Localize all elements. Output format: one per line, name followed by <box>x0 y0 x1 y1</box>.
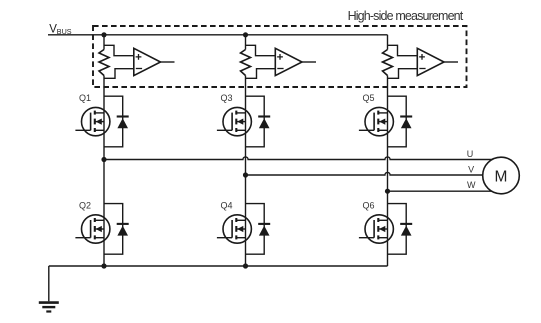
svg-text:Q4: Q4 <box>221 201 233 211</box>
svg-text:U: U <box>467 149 474 159</box>
wire: column 3 rail VBUS to shunt R3 <box>387 35 389 50</box>
junction node W (Q5 source / Q6 drain) <box>385 189 390 194</box>
junction node VBUS / column 2 <box>243 32 248 37</box>
transistor Q4 (N-channel MOSFET) <box>217 215 252 243</box>
junction node VBUS / column 1 <box>101 32 106 37</box>
body diode D6 of Q6 <box>388 204 413 255</box>
transistor Q6 (N-channel MOSFET) <box>359 215 394 243</box>
body diode D3 of Q3 <box>246 96 271 147</box>
transistor Q3 (N-channel MOSFET) <box>217 107 252 135</box>
junction node V (Q3 source / Q4 drain) <box>243 172 248 177</box>
wire: column 3 rail shunt to bottom rail <box>387 76 389 267</box>
op-amp U3 (current-sense amplifier) <box>417 48 444 75</box>
wire: shunt lower sense tap to op-amp U1 - input <box>104 69 134 79</box>
svg-text:High-side measurement: High-side measurement <box>348 9 464 23</box>
svg-text:W: W <box>467 180 476 190</box>
wire: op-amp U2 output stub <box>302 61 316 63</box>
shunt resistor R2 (high-side shunt) <box>241 50 251 76</box>
wire: op-amp U3 output stub <box>444 61 458 63</box>
high-side measurement dashed boundary box <box>93 26 467 87</box>
wire: shunt upper sense tap to op-amp U1 + input <box>104 45 134 55</box>
ground <box>39 303 59 312</box>
body diode D1 of Q1 <box>104 96 129 147</box>
transistor Q5 (N-channel MOSFET) <box>359 107 394 135</box>
body diode D2 of Q2 <box>104 204 129 255</box>
wire: shunt lower sense tap to op-amp U2 - input <box>246 69 276 79</box>
wire: phase W from Q5/Q6 node to motor <box>388 190 498 192</box>
net label VBUS <box>49 23 72 36</box>
wire: shunt upper sense tap to op-amp U3 + input <box>388 45 418 55</box>
svg-text:Q1: Q1 <box>79 93 91 103</box>
body diode D4 of Q4 <box>246 204 271 255</box>
wire: phase V from Q3/Q4 node to motor (hops over column 3) <box>246 172 498 175</box>
wire: ground rail drop to ground symbol <box>48 266 50 301</box>
transistor Q2 (N-channel MOSFET) <box>75 215 110 243</box>
op-amp U1 (current-sense amplifier) <box>134 48 161 75</box>
op-amp U2 (current-sense amplifier) <box>275 48 302 75</box>
body diode D5 of Q5 <box>388 96 413 147</box>
svg-text:Q5: Q5 <box>363 93 375 103</box>
junction node ground rail / Q4 source <box>243 263 248 268</box>
svg-text:V: V <box>468 164 474 174</box>
svg-text:Q2: Q2 <box>79 201 91 211</box>
motor M <box>483 157 520 194</box>
wire: op-amp U1 output stub <box>161 61 175 63</box>
shunt resistor R3 (high-side shunt) <box>383 50 393 76</box>
wire: phase U from Q1/Q2 node to motor (hops over columns 2,3) <box>104 157 497 160</box>
wire: ground rail (sources of Q2,Q4,Q6) <box>49 265 388 267</box>
wire: column 1 rail VBUS to shunt R1 <box>103 35 105 50</box>
junction node U (Q1 source / Q2 drain) <box>101 157 106 162</box>
wire: column 2 rail VBUS to shunt R2 <box>245 35 247 50</box>
wire: VBUS bus rail <box>48 34 388 36</box>
wire: shunt lower sense tap to op-amp U3 - input <box>388 69 418 79</box>
svg-text:Q6: Q6 <box>363 201 375 211</box>
svg-text:Q3: Q3 <box>221 93 233 103</box>
svg-text:M: M <box>495 169 508 186</box>
wire: shunt upper sense tap to op-amp U2 + input <box>246 45 276 55</box>
transistor Q1 (N-channel MOSFET) <box>75 107 110 135</box>
wire: column 1 rail shunt to bottom rail <box>103 76 105 267</box>
junction node ground rail / Q2 source <box>101 263 106 268</box>
wire: column 2 rail shunt to bottom rail <box>245 76 247 267</box>
shunt resistor R1 (high-side shunt) <box>99 50 109 76</box>
